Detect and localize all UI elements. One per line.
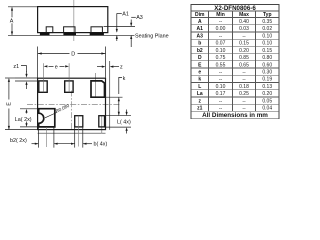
- svg-text:0.00: 0.00: [216, 26, 226, 32]
- svg-text:0.04: 0.04: [262, 106, 272, 112]
- dimension D extension lines: [37, 47, 39, 79]
- svg-text:0.20: 0.20: [239, 48, 249, 54]
- svg-text:b: b: [198, 41, 201, 47]
- dimension A extension line top: [8, 6, 38, 8]
- dimension E vertical line with arrows: [8, 79, 10, 100]
- pad E (bottom-middle): [75, 116, 83, 127]
- label A1 with leader: [117, 12, 122, 14]
- A3 extension from pad top: [104, 25, 136, 27]
- svg-text:k: k: [123, 76, 126, 82]
- svg-text:A3: A3: [136, 15, 143, 21]
- svg-text:0.10: 0.10: [262, 33, 272, 39]
- pad A (top-left): [39, 81, 47, 92]
- svg-text:X2-DFN0806-6: X2-DFN0806-6: [214, 5, 256, 12]
- svg-text:0.60: 0.60: [262, 62, 272, 68]
- svg-text:0.15: 0.15: [262, 48, 272, 54]
- pad B (top-middle): [65, 81, 73, 92]
- svg-text:--: --: [242, 69, 246, 75]
- A3 arrow up below seating plane: [130, 36, 132, 47]
- svg-text:0.10: 0.10: [216, 48, 226, 54]
- label E (rotated): [6, 102, 12, 106]
- pad B centerline / e extension: [68, 63, 70, 92]
- svg-text:La: La: [197, 91, 203, 97]
- body bottom extension (left): [5, 129, 38, 131]
- bottom view vertical centerline: [71, 91, 73, 131]
- svg-text:b2( 2x): b2( 2x): [10, 138, 27, 144]
- svg-text:Min: Min: [216, 12, 225, 18]
- L dimension lower arrow: [126, 131, 128, 134]
- svg-text:0.55: 0.55: [216, 62, 226, 68]
- svg-text:b( 4x): b( 4x): [94, 142, 108, 148]
- svg-text:0.17: 0.17: [216, 91, 226, 97]
- La lower arrow: [26, 122, 28, 124]
- svg-text:k: k: [198, 77, 201, 83]
- svg-text:e: e: [198, 69, 201, 75]
- svg-text:All Dimensions in mm: All Dimensions in mm: [202, 112, 268, 119]
- svg-text:e: e: [55, 64, 58, 70]
- pad C centerline: [95, 73, 97, 97]
- b2 extension lines down from pad D edges: [38, 128, 40, 148]
- svg-text:0.05: 0.05: [262, 98, 272, 104]
- svg-text:Typ: Typ: [263, 12, 272, 18]
- pad F top extension (right): [106, 115, 132, 117]
- svg-text:0.75: 0.75: [216, 55, 226, 61]
- svg-text:--: --: [219, 98, 223, 104]
- svg-text:b2: b2: [197, 48, 203, 54]
- svg-text:--: --: [219, 19, 223, 25]
- terminal protrusion line right: [109, 61, 111, 130]
- b extension lines down from pad E edges: [74, 127, 76, 147]
- pad F centerline: [101, 116, 103, 134]
- svg-text:z1: z1: [197, 106, 203, 112]
- svg-text:--: --: [219, 106, 223, 112]
- svg-text:--: --: [242, 106, 246, 112]
- svg-text:D: D: [71, 52, 75, 58]
- pad C bottom extension (right): [106, 96, 123, 98]
- k dimension arrows: [118, 98, 120, 116]
- body top edge extension (left): [15, 77, 38, 79]
- svg-text:E: E: [6, 102, 12, 106]
- pad A centerline / e extension: [42, 63, 44, 92]
- svg-text:L( 4x): L( 4x): [117, 119, 131, 125]
- svg-text:Seating Plane: Seating Plane: [135, 33, 169, 39]
- svg-text:0.65: 0.65: [239, 62, 249, 68]
- side view pad 3 outline: [91, 27, 102, 33]
- svg-text:L: L: [198, 84, 201, 90]
- bottom view horizontal centerline: [27, 104, 121, 106]
- svg-text:--: --: [219, 33, 223, 39]
- svg-text:0.18: 0.18: [239, 84, 249, 90]
- side view terminal 2 (filled): [63, 33, 76, 36]
- label A3 with leader: [131, 16, 136, 18]
- pad A top edge extension (left): [15, 80, 39, 82]
- svg-text:0.10: 0.10: [262, 41, 272, 47]
- z1 up arrow below: [26, 85, 28, 90]
- svg-text:z1: z1: [13, 64, 19, 70]
- dimension D line with arrows: [38, 53, 106, 55]
- z left arrow: [97, 66, 102, 68]
- La upper arrow: [26, 112, 28, 113]
- svg-text:0.19: 0.19: [262, 77, 272, 83]
- dimension e line with arrows: [49, 65, 54, 67]
- svg-text:0.35: 0.35: [262, 19, 272, 25]
- pad D (bottom-left, large with notch R): [39, 109, 55, 127]
- svg-text:0.30: 0.30: [262, 69, 272, 75]
- svg-text:--: --: [242, 77, 246, 83]
- svg-text:A1: A1: [122, 11, 129, 17]
- svg-text:0.85: 0.85: [239, 55, 249, 61]
- side view package body: [38, 7, 108, 33]
- pad E centerline: [78, 116, 80, 147]
- svg-text:z: z: [120, 64, 123, 70]
- svg-text:0.13: 0.13: [262, 84, 272, 90]
- side view terminal 3 (filled): [90, 33, 104, 36]
- svg-text:A: A: [10, 18, 14, 24]
- seating plane line: [8, 34, 135, 36]
- pad C (top-right, large with chamfer): [91, 81, 105, 97]
- svg-text:La( 2x): La( 2x): [15, 117, 32, 123]
- b dimension right arrow with leader: [83, 143, 92, 145]
- svg-text:0.10: 0.10: [216, 84, 226, 90]
- svg-text:D: D: [198, 55, 202, 61]
- svg-text:A3: A3: [197, 33, 204, 39]
- svg-text:--: --: [242, 33, 246, 39]
- b2 dimension arrows (outside, pointing in): [32, 143, 39, 145]
- svg-text:--: --: [242, 98, 246, 104]
- svg-text:Max: Max: [239, 12, 249, 18]
- svg-text:--: --: [219, 77, 223, 83]
- dimension table: [191, 4, 279, 118]
- svg-text:0.20: 0.20: [262, 91, 272, 97]
- label A: [9, 17, 15, 23]
- svg-text:0.15: 0.15: [239, 41, 249, 47]
- pad F bottom extension (right): [106, 126, 132, 128]
- svg-text:0.03: 0.03: [239, 26, 249, 32]
- side view centerline: [73, 0, 75, 41]
- dimension A: [11, 8, 13, 35]
- svg-text:Dim: Dim: [195, 12, 205, 18]
- body top extension far left: [5, 77, 15, 79]
- side view pad 1 outline: [46, 27, 53, 33]
- svg-text:A1: A1: [197, 26, 204, 32]
- svg-text:0.40: 0.40: [239, 19, 249, 25]
- side view terminal 1 (filled): [40, 33, 50, 36]
- bottom view body outline: [38, 78, 106, 129]
- side view pad 2 outline: [64, 27, 75, 33]
- pad D top extension (left): [20, 108, 39, 110]
- svg-text:0.02: 0.02: [262, 26, 272, 32]
- svg-text:0.07: 0.07: [216, 41, 226, 47]
- L dimension upper arrow: [126, 110, 128, 113]
- pad D centerline below: [46, 127, 48, 147]
- svg-text:A: A: [198, 19, 202, 25]
- A1 arrow up below seating plane: [116, 36, 118, 41]
- pad F (bottom-right): [99, 116, 105, 127]
- R0.080 radius callout: [45, 112, 57, 117]
- terminal protrusion line bottom: [38, 132, 106, 134]
- svg-text:--: --: [219, 69, 223, 75]
- pad D bottom extension (left): [20, 126, 39, 128]
- svg-text:0.25: 0.25: [239, 91, 249, 97]
- A1 arrow down to seating plane: [116, 13, 118, 32]
- label D: [70, 50, 78, 56]
- A3 arrow down to pad-top line: [130, 20, 132, 26]
- svg-text:0.80: 0.80: [262, 55, 272, 61]
- z right arrow and leader: [110, 66, 114, 68]
